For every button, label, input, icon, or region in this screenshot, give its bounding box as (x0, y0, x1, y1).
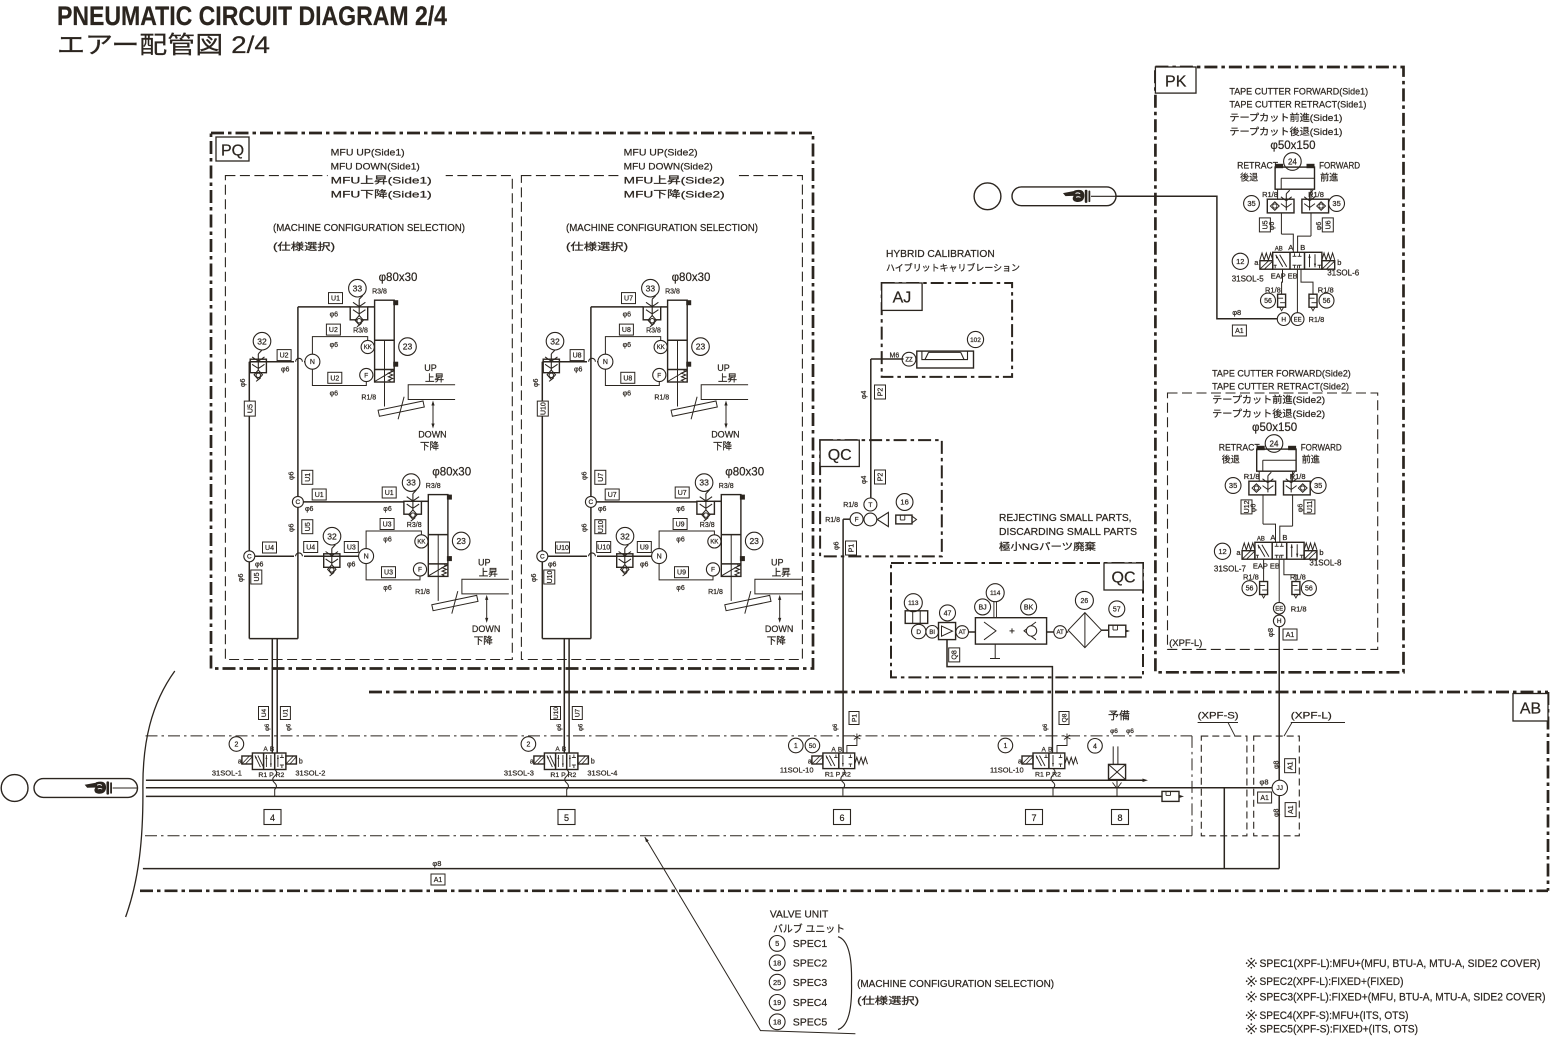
svg-text:F: F (364, 372, 368, 379)
port ZZ (902, 352, 916, 366)
svg-text:50: 50 (809, 743, 817, 750)
svg-text:φ6: φ6 (255, 562, 264, 569)
svg-text:φ6: φ6 (548, 562, 557, 569)
svg-text:バルブ ユニット: バルブ ユニット (773, 923, 845, 936)
svg-text:ZZ: ZZ (905, 357, 913, 363)
wire AJ to QC (871, 358, 904, 360)
balloon 35 left Side2 (1225, 478, 1241, 494)
svg-text:32: 32 (257, 336, 267, 346)
svg-text:U5: U5 (254, 572, 261, 581)
wire top port Side2 lower (714, 500, 721, 502)
cylinder body Side2 lower (721, 495, 741, 577)
svg-text:35: 35 (1314, 481, 1322, 490)
svg-text:φ50x150: φ50x150 (1252, 422, 1297, 434)
piston rod Side1 lower (437, 535, 439, 601)
svg-text:ハイブリットキャリブレーション: ハイブリットキャリブレーション (886, 262, 1020, 273)
svg-text:SPEC1: SPEC1 (793, 938, 828, 950)
flow control valve 32 upper Side2 (543, 359, 559, 373)
balloon 33 Side2 upper (642, 279, 660, 297)
boxed labels U Side1 (1259, 218, 1270, 232)
svg-text:φ6: φ6 (623, 391, 632, 398)
svg-text:φ6: φ6 (347, 562, 356, 569)
cylinder phi50x150 Side1 (1275, 167, 1314, 189)
return spring valve6 (855, 757, 868, 764)
svg-text:R1/8: R1/8 (361, 395, 376, 402)
svg-text:φ6: φ6 (1251, 504, 1258, 513)
svg-text:35: 35 (1229, 481, 1237, 490)
svg-text:φ6: φ6 (288, 523, 295, 532)
tilted plate Side2 upper (671, 401, 717, 416)
svg-text:b: b (1337, 258, 1341, 267)
svg-text:U5: U5 (247, 404, 254, 413)
svg-text:φ6: φ6 (581, 523, 588, 532)
wire top port Side1 lower (421, 500, 428, 502)
svg-text:F: F (855, 517, 859, 524)
svg-text:BI: BI (929, 630, 935, 636)
balloon 57 (1109, 601, 1125, 617)
svg-text:φ6: φ6 (833, 723, 839, 731)
svg-text:A: A (831, 747, 836, 754)
svg-text:(XPF-L): (XPF-L) (1291, 711, 1332, 722)
svg-text:31SOL-1: 31SOL-1 (212, 769, 242, 778)
svg-text:R1 P R2: R1 P R2 (1035, 772, 1061, 779)
port KK Side2 lower (708, 535, 721, 548)
balloon 33 Side2 lower (695, 474, 713, 492)
svg-text:C: C (540, 554, 545, 561)
boxed label U9 lower Side2 lower (675, 567, 689, 578)
svg-text:U4: U4 (265, 545, 274, 552)
svg-text:SPEC5(XPF-S):FIXED+(ITS, OTS): SPEC5(XPF-S):FIXED+(ITS, OTS) (1260, 1024, 1419, 1036)
svg-text:R3/8: R3/8 (665, 289, 680, 296)
svg-text:TAPE CUTTER RETRACT(Side2): TAPE CUTTER RETRACT(Side2) (1212, 382, 1349, 393)
svg-text:QC: QC (828, 447, 852, 464)
svg-text:φ8: φ8 (1260, 778, 1269, 787)
QC reject region border (891, 563, 1143, 677)
svg-text:2: 2 (234, 742, 238, 749)
svg-text:24: 24 (1288, 157, 1297, 166)
balloon 2 valve5 (521, 737, 536, 752)
svg-text:(MACHINE CONFIGURATION SELECTI: (MACHINE CONFIGURATION SELECTION) (857, 979, 1054, 990)
main line phi8 A1 (143, 868, 1279, 870)
port D (912, 624, 926, 638)
wire N to F Side2 lower (659, 564, 713, 580)
spec item SPEC2 (769, 955, 785, 971)
svg-text:12: 12 (1236, 257, 1244, 266)
svg-text:19: 19 (773, 998, 781, 1007)
svg-text:MFU UP(Side1): MFU UP(Side1) (331, 148, 405, 159)
piston rod Side1 upper (384, 340, 386, 406)
svg-text:φ6: φ6 (623, 342, 632, 349)
spec note SPEC1 (1248, 960, 1255, 967)
svg-text:QC: QC (1112, 570, 1136, 587)
port F Side1 lower (413, 563, 426, 576)
pilot line 114 (993, 602, 995, 618)
tilted plate Side1 upper (378, 401, 424, 416)
svg-text:R1/8: R1/8 (843, 502, 858, 509)
node C upper Side2 (585, 496, 596, 507)
svg-text:33: 33 (353, 283, 363, 293)
boxed label A1 Side2 (1283, 629, 1297, 640)
svg-text:MFU DOWN(Side2): MFU DOWN(Side2) (624, 162, 713, 173)
XPF-L dashed box Side2 (1168, 393, 1378, 649)
svg-text:VALVE UNIT: VALVE UNIT (770, 909, 829, 921)
svg-text:6: 6 (839, 813, 844, 823)
pointing hand stadium left (34, 779, 138, 798)
vacuum ejector BK (975, 618, 1046, 644)
wire H Side2 down to manifold (1278, 627, 1280, 781)
PK region border (1155, 67, 1403, 672)
svg-text:φ50x150: φ50x150 (1270, 140, 1315, 152)
balloon 35 right Side2 (1310, 478, 1326, 494)
svg-text:U9: U9 (676, 522, 685, 529)
svg-text:KK: KK (364, 345, 372, 351)
balloon 23 Side1 upper (399, 338, 417, 356)
balloon 56 left Side1 (1261, 293, 1276, 308)
svg-text:R1/8: R1/8 (708, 589, 723, 596)
balloon 24 Side2 (1265, 435, 1283, 453)
svg-text:下降: 下降 (767, 635, 787, 647)
svg-text:U7: U7 (608, 492, 617, 499)
port F QC (850, 513, 863, 526)
exhaust squiggle valve6 (841, 769, 845, 796)
boxed label U2 at 32 valve upper Side1 (277, 350, 291, 361)
svg-text:23: 23 (749, 536, 759, 546)
balloon 113 (904, 594, 922, 612)
svg-text:RETRACT: RETRACT (1219, 443, 1260, 453)
svg-text:前進: 前進 (1320, 172, 1338, 183)
port F Side2 upper (653, 368, 666, 381)
svg-text:31SOL-3: 31SOL-3 (504, 769, 534, 778)
ejector drain (994, 644, 996, 658)
balloon 35 left Side1 (1244, 196, 1260, 212)
wire C to lower assembly top Side1 (303, 501, 404, 503)
UP-DOWN arrow Side2 upper (725, 404, 727, 426)
solenoid valve 31SOL-7/31SOL-8 Side2 body (1255, 542, 1304, 559)
boxed label U1 Side1 lower (382, 487, 396, 498)
svg-text:a: a (1018, 759, 1022, 766)
wires below valve Side2 (1263, 559, 1265, 581)
svg-text:R1/8: R1/8 (1244, 472, 1260, 481)
svg-text:FORWARD: FORWARD (1319, 161, 1360, 171)
svg-text:A1: A1 (1235, 328, 1244, 335)
svg-text:N: N (310, 359, 315, 366)
wires below valve Side1 (1281, 269, 1284, 294)
svg-text:114: 114 (990, 590, 1001, 597)
svg-text:φ80x30: φ80x30 (672, 272, 711, 284)
machine step lines Side1 upper (408, 385, 455, 400)
svg-text:R3/8: R3/8 (426, 483, 441, 490)
svg-text:R3/8: R3/8 (719, 483, 734, 490)
svg-text:56: 56 (1305, 586, 1313, 593)
svg-text:C: C (247, 554, 252, 561)
wire booster to valve unit 7 (947, 640, 1052, 753)
svg-text:φ6: φ6 (1298, 504, 1305, 513)
svg-text:11SOL-10: 11SOL-10 (780, 766, 814, 775)
svg-text:上昇: 上昇 (425, 374, 445, 385)
cylinder body Side2 upper (668, 300, 688, 382)
spare plug box (1109, 764, 1126, 779)
svg-text:後退: 後退 (1222, 454, 1240, 465)
UP-DOWN arrow Side1 upper (432, 404, 434, 426)
PQ label box (216, 137, 249, 161)
svg-text:U11: U11 (1307, 501, 1314, 513)
pilot solenoid right 31SOL-5/31SOL-6 Side1 (1322, 261, 1335, 270)
svg-text:テープカット前進(Side1): テープカット前進(Side1) (1229, 112, 1342, 124)
svg-text:φ80x30: φ80x30 (725, 467, 764, 479)
boxed label A1 Side1 (1232, 325, 1246, 336)
spec note SPEC5 (1248, 1025, 1255, 1032)
supply line C (146, 795, 1162, 797)
svg-text:32: 32 (620, 531, 630, 541)
exhaust squiggle valve4 (273, 770, 277, 797)
wire N to F Side2 upper (605, 369, 659, 385)
svg-text:(XPF-S): (XPF-S) (1198, 711, 1239, 722)
svg-text:φ6: φ6 (579, 723, 585, 731)
svg-text:B: B (270, 746, 274, 753)
svg-text:56: 56 (1264, 298, 1272, 305)
svg-text:SPEC2: SPEC2 (793, 958, 828, 970)
svg-text:B: B (1282, 533, 1287, 542)
svg-text:φ8: φ8 (1232, 308, 1241, 317)
svg-text:57: 57 (1113, 606, 1121, 613)
AJ label box (882, 283, 922, 310)
balloon 35 right Side1 (1329, 196, 1345, 212)
bottom manifold connector Side2 (542, 638, 591, 640)
return spring valve7 (1065, 757, 1078, 764)
valve unit 7 group 11SOL-10 (998, 738, 1013, 753)
svg-text:KK: KK (657, 345, 665, 351)
port BI (926, 626, 939, 639)
svg-text:U4: U4 (261, 708, 268, 717)
svg-text:56: 56 (1323, 298, 1331, 305)
svg-text:U1: U1 (385, 490, 394, 497)
svg-text:φ6: φ6 (1269, 222, 1276, 231)
svg-text:EE: EE (1275, 606, 1283, 612)
svg-text:R1/8: R1/8 (415, 589, 430, 596)
XPF-L small dashed box (1254, 736, 1300, 836)
boxed label U8 lower Side2 upper (621, 372, 635, 383)
svg-text:R1/8: R1/8 (1309, 315, 1325, 324)
PQ region border (211, 133, 813, 669)
svg-text:16: 16 (900, 498, 908, 507)
node N Side2 lower (652, 549, 667, 564)
svg-text:N: N (364, 554, 369, 561)
svg-text:SPEC3(XPF-L):FIXED+(MFU, BTU-A: SPEC3(XPF-L):FIXED+(MFU, BTU-A, MTU-A, S… (1260, 992, 1546, 1004)
port EE Side1 (1291, 313, 1304, 326)
balloon BJ (975, 599, 991, 615)
pilot solenoid left 31SOL-5/31SOL-6 Side1 (1260, 261, 1273, 270)
port KK Side1 lower (415, 535, 428, 548)
svg-text:予備: 予備 (1108, 709, 1130, 722)
spec note SPEC2 (1248, 978, 1255, 985)
svg-text:R1/8: R1/8 (1318, 286, 1334, 295)
svg-text:(MACHINE CONFIGURATION SELECTI: (MACHINE CONFIGURATION SELECTION) (273, 223, 465, 234)
wire N to KK Side2 lower (659, 531, 714, 549)
boxed label U9 upper Side2 lower (673, 519, 687, 530)
svg-text:φ6: φ6 (834, 541, 841, 550)
svg-text:U3: U3 (383, 522, 392, 529)
svg-text:1: 1 (1003, 743, 1007, 750)
svg-text:R3/8: R3/8 (700, 522, 715, 529)
svg-text:φ6: φ6 (1110, 728, 1118, 735)
valve unit 6 group 11SOL-10 (805, 738, 820, 753)
svg-text:25: 25 (773, 978, 781, 987)
svg-text:φ8: φ8 (1274, 760, 1281, 769)
svg-text:φ6: φ6 (281, 367, 290, 374)
svg-text:SPEC2(XPF-L):FIXED+(FIXED): SPEC2(XPF-L):FIXED+(FIXED) (1260, 976, 1404, 988)
cylinder body Side1 lower (428, 495, 448, 577)
svg-text:φ6: φ6 (640, 562, 649, 569)
svg-text:5: 5 (775, 939, 779, 948)
svg-text:φ6: φ6 (330, 391, 339, 398)
wire top port Side1 upper (368, 306, 375, 308)
svg-text:33: 33 (406, 478, 416, 488)
svg-text:EAP EB: EAP EB (1253, 561, 1280, 570)
svg-text:D: D (916, 629, 921, 636)
svg-text:JJ: JJ (1277, 785, 1284, 792)
svg-text:AJ: AJ (893, 290, 912, 307)
solenoid a valve5 (534, 756, 545, 764)
svg-text:φ80x30: φ80x30 (432, 467, 471, 479)
svg-text:UP: UP (478, 558, 491, 568)
valve body valve6 (823, 753, 855, 769)
svg-text:47: 47 (944, 610, 952, 617)
balloon BK (1021, 599, 1037, 615)
svg-text:φ6: φ6 (330, 342, 339, 349)
svg-text:(仕様選択): (仕様選択) (566, 240, 628, 253)
svg-text:31SOL-2: 31SOL-2 (295, 769, 325, 778)
wire N to KK Side2 upper (605, 337, 660, 355)
UP-DOWN arrow Side1 lower (486, 598, 488, 620)
svg-text:φ4: φ4 (861, 390, 868, 399)
svg-text:AT: AT (1056, 630, 1064, 636)
svg-text:エアー配管図 2/4: エアー配管図 2/4 (57, 32, 270, 59)
piston rod Side2 lower (730, 535, 732, 601)
balloon 2 valve4 (229, 737, 244, 752)
drop wires to manifold Side1 (271, 639, 273, 753)
port EE Side2 (1273, 602, 1285, 614)
svg-text:B: B (562, 746, 566, 753)
UP-DOWN arrow Side2 lower (779, 598, 781, 620)
valve body valve7 (1033, 753, 1065, 769)
svg-text:U10: U10 (547, 570, 554, 583)
balloon 114 (986, 584, 1004, 602)
svg-text:18: 18 (773, 959, 781, 968)
svg-text:P1: P1 (851, 714, 858, 722)
pilot solenoid right 31SOL-7/31SOL-8 Side2 (1304, 551, 1317, 560)
balloon 32 upper Side2 (546, 332, 564, 350)
svg-text:φ6: φ6 (383, 537, 392, 544)
svg-text:R1/8: R1/8 (825, 517, 840, 524)
solenoid valve7 (1022, 756, 1033, 764)
svg-text:18: 18 (773, 1018, 781, 1027)
valve zone dashed border (146, 735, 1193, 737)
wires to valve Side1 (1280, 213, 1282, 234)
svg-text:φ6: φ6 (533, 378, 540, 387)
svg-text:U7: U7 (624, 296, 633, 303)
svg-text:TAPE CUTTER FORWARD(Side1): TAPE CUTTER FORWARD(Side1) (1229, 87, 1368, 98)
svg-text:31SOL-5: 31SOL-5 (1232, 274, 1265, 283)
svg-text:1: 1 (794, 743, 798, 750)
left break curve (126, 671, 175, 917)
machine step lines Side2 upper (701, 385, 748, 400)
svg-text:DOWN: DOWN (472, 624, 501, 634)
svg-text:SPEC4: SPEC4 (793, 997, 828, 1009)
svg-text:R1/8: R1/8 (654, 395, 669, 402)
svg-text:U9: U9 (640, 545, 649, 552)
svg-text:Q8: Q8 (952, 650, 959, 659)
boxed label U8 upper Side2 upper (619, 324, 633, 335)
vertical wire V1 Side2 (590, 307, 592, 497)
svg-text:φ6: φ6 (288, 471, 295, 480)
svg-text:テープカット後退(Side1): テープカット後退(Side1) (1229, 126, 1342, 138)
svg-text:35: 35 (1332, 199, 1340, 208)
svg-text:R3/8: R3/8 (407, 522, 422, 529)
svg-text:φ4: φ4 (861, 475, 868, 484)
node C upper Side1 (292, 496, 303, 507)
svg-text:U9: U9 (677, 570, 686, 577)
svg-text:U8: U8 (573, 353, 582, 360)
svg-text:φ6: φ6 (531, 573, 538, 582)
node N Side2 upper (598, 354, 613, 369)
svg-text:31SOL-8: 31SOL-8 (1309, 558, 1342, 567)
solenoid a valve4 (242, 756, 253, 764)
balloon 23 Side2 upper (692, 338, 710, 356)
solenoid valve 31SOL-5/31SOL-6 Side1 body (1273, 252, 1322, 269)
svg-text:P1: P1 (849, 544, 856, 553)
silencer box 16 (896, 515, 912, 524)
svg-text:(仕様選択): (仕様選択) (273, 240, 335, 253)
svg-text:φ6: φ6 (1316, 222, 1323, 231)
node C lower Side2 (537, 551, 548, 562)
svg-text:R1/8: R1/8 (1290, 472, 1306, 481)
node N Side1 upper (305, 354, 320, 369)
boxed label Q8 in QC reject (949, 648, 960, 662)
svg-text:EE: EE (1294, 317, 1302, 323)
svg-text:A: A (555, 746, 560, 753)
filter diamond 26 (1068, 613, 1101, 648)
svg-text:U1: U1 (331, 296, 340, 303)
svg-text:φ6: φ6 (598, 506, 607, 513)
machine step lines Side2 lower (755, 579, 802, 594)
wire top port upper assembly Side1 (298, 306, 350, 308)
svg-text:φ6: φ6 (1126, 728, 1134, 735)
svg-text:A: A (1288, 243, 1293, 252)
XPF-S dashed box (1201, 736, 1247, 836)
svg-text:U7: U7 (678, 490, 687, 497)
svg-text:AB: AB (1275, 246, 1283, 252)
nozzle block 102 (917, 351, 974, 368)
svg-text:33: 33 (646, 283, 656, 293)
svg-text:φ6: φ6 (1043, 723, 1049, 731)
wire AT to ejector (969, 631, 976, 633)
flow control valve 32 upper Side1 (250, 359, 266, 373)
svg-text:a: a (808, 759, 812, 766)
svg-text:35: 35 (1247, 199, 1255, 208)
balloon 47 (940, 605, 956, 621)
pointing hand glyph top (1063, 191, 1076, 196)
silencer 57 (1109, 625, 1126, 637)
svg-text:BK: BK (1024, 604, 1034, 611)
svg-text:A1: A1 (1286, 632, 1295, 639)
vacuum ejector QC (864, 513, 877, 526)
svg-text:26: 26 (1081, 598, 1089, 605)
balloon 33 Side1 upper (349, 279, 367, 297)
svg-text:N: N (603, 359, 608, 366)
svg-text:RETRACT: RETRACT (1237, 161, 1278, 171)
AB region border (369, 691, 1548, 694)
svg-text:UP: UP (717, 363, 730, 373)
